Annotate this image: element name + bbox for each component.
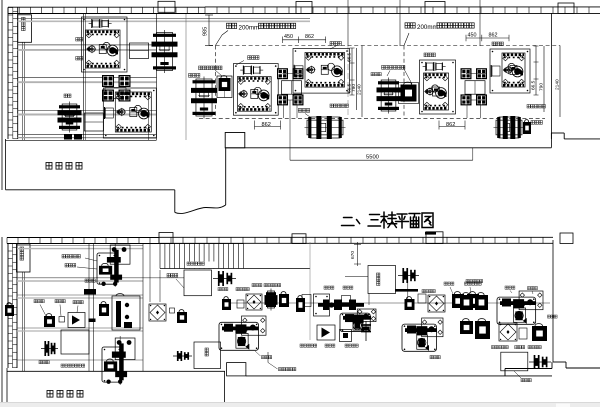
- svg-text:450: 450: [284, 34, 293, 40]
- connector box right of A1: [130, 43, 149, 59]
- svg-text:66.5: 66.5: [347, 52, 353, 62]
- bottom plan top wall right: [159, 236, 553, 238]
- bottom plan left wall brick: [7, 244, 9, 369]
- pay-off machine box 放线机 (empty): [184, 270, 212, 296]
- shot blasting machine dark: [44, 316, 55, 327]
- wall column block D: [558, 3, 574, 13]
- top exterior wall, left brick section: [8, 6, 205, 8]
- rail vertical line x83.5: [83, 14, 85, 140]
- title 二、三楼平面图: [342, 212, 434, 228]
- safety passage text 安全通道 top: [46, 163, 52, 170]
- small block below spool: [405, 299, 415, 310]
- machines left column middle: [149, 304, 166, 321]
- rail lines group 2: [18, 44, 157, 46]
- upper dark bar near rails: [84, 289, 96, 295]
- furnace machine below middle group: [307, 120, 343, 135]
- vertical line x553 lower: [505, 375, 600, 377]
- corridor bottom-left boundary: [7, 370, 225, 372]
- machine cluster right-right: [490, 49, 530, 93]
- label 放线机: [167, 274, 170, 278]
- rack comb structure: [160, 243, 244, 245]
- boundary line exiting right: [564, 138, 600, 140]
- machine cluster F2: [340, 313, 370, 331]
- labels right-middle: [422, 290, 425, 293]
- bottom wall column D: [560, 233, 573, 244]
- dark machine left edge middle: [296, 298, 305, 312]
- leader for platform note left: [222, 31, 228, 36]
- machine right side of middle group: [381, 80, 396, 111]
- platform dashed edge left vertical: [214, 46, 216, 119]
- dimension 985 vertical: [208, 15, 210, 46]
- dim 5500: [290, 159, 473, 161]
- svg-text:790: 790: [539, 83, 545, 91]
- labels row below middle: [300, 344, 303, 347]
- empty box bottom-left: [61, 330, 89, 354]
- pad-to-furnace connector lines right: [466, 105, 468, 118]
- svg-text:200mm: 200mm: [239, 25, 260, 32]
- dark feed bar below spool: [395, 289, 418, 292]
- dark machines row2 far right: [460, 321, 473, 334]
- labels row middle-left: [218, 288, 221, 291]
- boundary notch box left: [225, 133, 245, 148]
- rail lines group 5: [18, 133, 157, 135]
- rail vertical line x156.5: [156, 14, 158, 140]
- platform note text right: [405, 23, 410, 28]
- boundary notch right: [550, 133, 552, 139]
- svg-text:2140: 2140: [357, 84, 363, 95]
- platform note text left 浇筑200mm厚的水泥平台: [227, 23, 232, 28]
- machine cluster middle-left gear grinder: [233, 64, 278, 116]
- small box far right: [519, 328, 527, 339]
- machine cluster C1: [103, 88, 156, 138]
- svg-text:66.5: 66.5: [531, 80, 537, 90]
- spool far right: [529, 361, 551, 363]
- svg-text:5500: 5500: [366, 155, 379, 161]
- left bay vertical line x186: [185, 14, 187, 140]
- bottom wall column A: [159, 233, 173, 244]
- right boundary vertical: [550, 13, 552, 147]
- label 激光检线装置 right of middle group: [382, 66, 385, 70]
- dim 670 vertical: [357, 242, 359, 266]
- labels 收线机 / (双工台)(混水机): [39, 361, 42, 364]
- labels 单相提升机 / 磨齿机: [62, 255, 65, 259]
- rail lines group 1: [18, 18, 310, 20]
- label 淬火炉 bottom-left: [85, 279, 88, 282]
- top plan boundary bottom-left: [5, 139, 7, 190]
- machine D1: [62, 104, 77, 130]
- rail lines group 3: [18, 77, 157, 79]
- polishing machine with triangle: [68, 313, 85, 328]
- label 串引机 F3: [430, 356, 433, 359]
- dark bar right of polisher: [89, 319, 96, 323]
- svg-text:450: 450: [468, 32, 477, 38]
- top exterior wall, right section with column ticks: [205, 6, 600, 8]
- xbox with triangle below middle: [317, 325, 335, 340]
- platform dashed edge top: [209, 45, 560, 47]
- tiny label pair near D1: [64, 94, 67, 98]
- laser head box middle group: [217, 76, 232, 98]
- leader for platform note right: [404, 33, 409, 46]
- laser checker machine left of middle group: [196, 79, 212, 116]
- grid vertical line x480: [479, 0, 481, 46]
- vertical coupling middle: [365, 321, 367, 341]
- machine D1 feet: [64, 134, 72, 140]
- bottom rail verticals: [88, 243, 90, 371]
- machine cluster G1 far right: [497, 297, 536, 324]
- label 磨齿机 middle-right: [330, 42, 333, 46]
- label 磨齿机 right-right: [492, 42, 495, 46]
- top plan long bottom boundary: [226, 147, 552, 149]
- bay vertical bottom plan x310: [309, 242, 311, 340]
- svg-text:200mm: 200mm: [417, 24, 438, 31]
- grid vertical line x348: [347, 0, 349, 46]
- dark machines left of G1: [460, 295, 473, 310]
- bottom boundary far right step: [553, 361, 566, 363]
- label 串引机 F1: [262, 356, 265, 359]
- pad group middle: [277, 68, 288, 79]
- svg-text:862: 862: [262, 122, 271, 128]
- machine cluster F1 horizontal: [219, 322, 258, 350]
- bottom wall column B: [292, 234, 306, 244]
- vertical line x268: [267, 352, 269, 363]
- vertical dim lines right of middle group: [351, 48, 353, 95]
- left rail vertical lines near middle: [149, 243, 151, 302]
- label 收线机 far right: [521, 379, 524, 382]
- svg-text:862: 862: [446, 122, 455, 128]
- machine B1 laser checker: [156, 33, 172, 71]
- machine frame middle group: [314, 294, 330, 316]
- machine cluster right-left gear grinder: [420, 60, 456, 114]
- svg-text:862: 862: [489, 32, 498, 38]
- bottom wall column C: [426, 232, 443, 244]
- window frame edge line top-left: [1, 0, 3, 190]
- label on right-left cluster: [424, 53, 427, 57]
- machine cluster A1 gear hobbing: [82, 17, 128, 72]
- bottom plan right boundary: [552, 240, 554, 362]
- dark machine x99: [99, 304, 109, 316]
- wire drawing bar middle group: [318, 303, 364, 307]
- svg-text:2140: 2140: [555, 79, 561, 90]
- left wall lower stub: [6, 368, 8, 402]
- pad group right: [461, 68, 472, 79]
- dark box far right: [532, 326, 547, 341]
- bottom window frame edge: [1, 237, 3, 402]
- label 放线架: [189, 74, 192, 78]
- left exterior wall brick: [7, 8, 9, 140]
- label on A1: [76, 38, 79, 42]
- wall column block C: [425, 2, 445, 14]
- page bottom gray strip: [0, 403, 600, 407]
- label 淬火炉 right: [531, 121, 534, 125]
- machine cluster E1 bottom-left: [97, 253, 117, 284]
- svg-text:985: 985: [203, 27, 209, 36]
- bottom plan long bottom line: [246, 375, 505, 377]
- far right group labels: [466, 280, 469, 283]
- spool right of payoff: [213, 278, 236, 280]
- take-up box 收线机 far right: [501, 352, 528, 371]
- take-up spool bottom-left: [41, 348, 58, 350]
- label 磨齿机 middle-left cluster: [248, 56, 251, 60]
- coupling pad pair below A1: [102, 75, 114, 87]
- bottom boundary mid with bump: [505, 368, 552, 370]
- label 退线架 far right edge: [548, 315, 551, 318]
- wall column block B: [296, 2, 312, 14]
- CO tester small box middle: [340, 330, 352, 342]
- dim row 450/862 right group: [466, 37, 509, 39]
- vertical dim lines right group: [535, 46, 537, 95]
- machine cluster F3: [402, 324, 436, 351]
- rail vertical below distribution box: [22, 42, 24, 140]
- safety passage text bottom 安全通道: [47, 391, 53, 398]
- svg-text:790: 790: [351, 84, 357, 92]
- dim row 450/862 middle group: [283, 39, 326, 41]
- label 放线架 right of middle group: [371, 73, 374, 76]
- machines right of xbox: [268, 291, 275, 308]
- platform dashed edge bottom: [199, 117, 545, 119]
- rail lines group 4: [18, 109, 157, 111]
- dim 862 below right-left cluster: [439, 126, 465, 128]
- furnace machine right group: [496, 120, 522, 135]
- wall column block A: [158, 1, 175, 12]
- wire path line bottom plan: [225, 302, 550, 304]
- machine cluster middle-right: [293, 49, 350, 94]
- title underline mark: [425, 232, 436, 235]
- dark machine between groups: [401, 85, 417, 102]
- small machines row middle-left: [222, 299, 231, 310]
- spool left of silver box: [173, 355, 192, 357]
- bottom rails: [17, 245, 143, 247]
- dim 862 below middle-left cluster: [255, 126, 281, 128]
- platform dashed vertical right group: [403, 46, 405, 119]
- label 激光检线装置 middle: [199, 66, 202, 70]
- label 淬火炉 middle: [298, 109, 301, 113]
- furnace side part right group: [523, 122, 531, 134]
- labels far right row: [492, 346, 495, 349]
- right-middle small machines: [418, 294, 426, 303]
- corridor right wall: [224, 371, 226, 402]
- spool right of drawing machine: [398, 275, 419, 277]
- xbox far right: [499, 323, 517, 341]
- silver box 银箱: [194, 342, 221, 369]
- distribution box 配电箱: [18, 15, 32, 43]
- pad-to-furnace connector lines middle: [283, 105, 285, 118]
- small box E: [85, 113, 104, 131]
- labels 磨齿机 串引机 middle: [324, 286, 327, 289]
- label 预压并装置: [279, 368, 282, 371]
- page bottom gray strip edge: [0, 402, 600, 403]
- machine cluster E2 bottom-left lower: [102, 347, 122, 382]
- machine pair: [302, 295, 311, 307]
- machines row bottom-left labels: [34, 300, 37, 303]
- bump box small mid: [227, 363, 246, 376]
- label 激光检线装置 right group: [527, 105, 530, 109]
- svg-text:670: 670: [350, 251, 356, 259]
- bottom plan top wall brick left: [7, 237, 159, 239]
- left bay bottom line: [6, 139, 157, 141]
- label 激光检线装置 lower middle: [330, 104, 333, 108]
- svg-text:862: 862: [305, 34, 314, 40]
- rack label 双相提升机: [186, 262, 218, 269]
- distribution box 配电箱 bottom: [17, 244, 31, 272]
- machine frame x112: [112, 296, 140, 330]
- small dark machine on left wall bottom plan: [5, 305, 14, 316]
- top plan boundary right of break: [225, 148, 227, 205]
- rail vertical below bottom distribution box: [22, 272, 24, 371]
- break line S-curve: [175, 205, 226, 213]
- grid vertical line x400: [399, 0, 401, 46]
- wire drawing machine box 拉丝机: [368, 266, 396, 294]
